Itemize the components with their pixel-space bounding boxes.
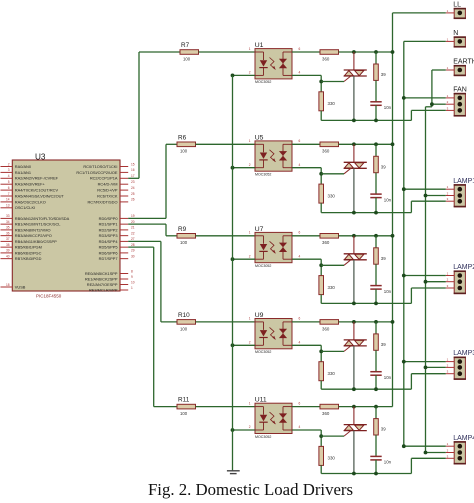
svg-text:RE3/MCLR/VPP: RE3/MCLR/VPP (89, 287, 118, 292)
svg-text:1: 1 (249, 139, 251, 143)
svg-text:LAMP2: LAMP2 (453, 264, 474, 271)
svg-text:2: 2 (249, 341, 251, 345)
svg-text:38: 38 (6, 243, 10, 247)
svg-text:10n: 10n (384, 197, 392, 202)
svg-text:7: 7 (8, 192, 10, 196)
svg-text:RD5/SPP5: RD5/SPP5 (99, 245, 118, 250)
svg-text:10n: 10n (384, 105, 392, 110)
svg-text:10n: 10n (384, 460, 392, 465)
svg-text:10: 10 (131, 280, 135, 284)
svg-text:4: 4 (299, 163, 301, 167)
svg-text:6: 6 (299, 317, 301, 321)
svg-text:100: 100 (180, 326, 188, 331)
svg-text:100: 100 (183, 56, 191, 61)
svg-text:16: 16 (131, 168, 135, 172)
svg-text:RA4/T0CKI/C1OUT/RCV: RA4/T0CKI/C1OUT/RCV (15, 188, 59, 193)
svg-text:R6: R6 (178, 134, 187, 141)
svg-text:RA5/AN4/SS/LVDIN/C2OUT: RA5/AN4/SS/LVDIN/C2OUT (15, 193, 65, 198)
svg-text:24: 24 (131, 186, 135, 190)
svg-text:RE0/AN5/CK1SPP: RE0/AN5/CK1SPP (85, 271, 118, 276)
svg-text:RC2/CCP1/P1A: RC2/CCP1/P1A (90, 176, 118, 181)
svg-text:LAMP4: LAMP4 (453, 435, 474, 442)
svg-text:RB6/KBI2/PGC: RB6/KBI2/PGC (15, 250, 42, 255)
svg-text:R11: R11 (178, 397, 190, 404)
svg-text:FAN: FAN (453, 87, 467, 94)
svg-text:20: 20 (131, 220, 135, 224)
svg-text:25: 25 (131, 192, 135, 196)
svg-text:RA2/AN2/VREF-/CVREF: RA2/AN2/VREF-/CVREF (15, 176, 59, 181)
svg-text:2: 2 (249, 163, 251, 167)
svg-text:R7: R7 (181, 42, 190, 49)
svg-text:21: 21 (131, 226, 135, 230)
svg-text:RD1/SPP1: RD1/SPP1 (99, 222, 118, 227)
svg-text:RD0/SPP0: RD0/SPP0 (99, 216, 119, 221)
svg-text:100: 100 (180, 149, 188, 154)
svg-text:4: 4 (299, 341, 301, 345)
svg-text:14: 14 (6, 198, 10, 202)
svg-text:VUSB: VUSB (15, 284, 26, 289)
svg-text:MOC3052: MOC3052 (255, 173, 271, 177)
svg-text:8: 8 (131, 269, 133, 273)
svg-text:4: 4 (299, 425, 301, 429)
svg-text:RB2/AN8/INT2/VMO: RB2/AN8/INT2/VMO (15, 227, 51, 232)
svg-text:RC5/D+/VP: RC5/D+/VP (97, 188, 118, 193)
svg-text:U5: U5 (255, 134, 264, 141)
svg-text:22: 22 (131, 231, 135, 235)
svg-text:1: 1 (249, 47, 251, 51)
svg-text:27: 27 (131, 237, 135, 241)
svg-text:MOC3052: MOC3052 (255, 350, 271, 354)
svg-text:U11: U11 (255, 397, 267, 404)
svg-text:36: 36 (6, 231, 10, 235)
svg-text:RC1/T1OSI/CCP2/UOE: RC1/T1OSI/CCP2/UOE (76, 170, 117, 175)
svg-text:6: 6 (8, 186, 10, 190)
svg-text:17: 17 (131, 174, 135, 178)
svg-text:U7: U7 (255, 226, 264, 233)
svg-text:30: 30 (131, 254, 135, 258)
svg-text:360: 360 (322, 240, 330, 245)
svg-text:4: 4 (299, 71, 301, 75)
svg-text:RD4/SPP4: RD4/SPP4 (99, 239, 119, 244)
svg-text:LAMP3: LAMP3 (453, 350, 474, 357)
svg-text:330: 330 (328, 456, 336, 461)
svg-text:39: 39 (381, 427, 386, 432)
svg-text:EARTH: EARTH (453, 59, 474, 66)
svg-text:40: 40 (6, 254, 10, 258)
svg-text:2: 2 (8, 162, 10, 166)
svg-text:39: 39 (381, 72, 386, 77)
svg-text:34: 34 (6, 220, 10, 224)
svg-text:RD3/SPP3: RD3/SPP3 (99, 233, 118, 238)
svg-text:29: 29 (131, 249, 135, 253)
svg-text:6: 6 (299, 47, 301, 51)
svg-text:RB7/KBI3/PGD: RB7/KBI3/PGD (15, 256, 42, 261)
svg-text:1: 1 (131, 286, 133, 290)
svg-text:Fig. 2. Domestic Load Drivers: Fig. 2. Domestic Load Drivers (148, 480, 353, 499)
svg-text:33: 33 (6, 214, 10, 218)
svg-text:RB1/AN10/INT1/SCK/SCL: RB1/AN10/INT1/SCK/SCL (15, 222, 61, 227)
svg-text:RC4/D-/VM: RC4/D-/VM (98, 182, 118, 187)
svg-text:N: N (453, 30, 458, 37)
svg-text:23: 23 (131, 180, 135, 184)
svg-text:330: 330 (328, 371, 336, 376)
svg-text:37: 37 (6, 237, 10, 241)
svg-text:MOC3052: MOC3052 (255, 264, 271, 268)
svg-text:28: 28 (131, 243, 135, 247)
svg-text:4: 4 (299, 254, 301, 258)
svg-text:OSC1/CLKI: OSC1/CLKI (15, 205, 35, 210)
svg-text:360: 360 (322, 149, 330, 154)
svg-text:6: 6 (299, 401, 301, 405)
svg-text:RC0/T1OSO/T1CKI: RC0/T1OSO/T1CKI (83, 164, 117, 169)
svg-text:4: 4 (8, 174, 10, 178)
svg-text:RA0/AN0: RA0/AN0 (15, 164, 32, 169)
svg-text:2: 2 (249, 254, 251, 258)
svg-text:6: 6 (299, 231, 301, 235)
svg-text:RD6/SPP6: RD6/SPP6 (99, 250, 118, 255)
svg-text:1: 1 (249, 401, 251, 405)
svg-text:RA3/AN3/VREF+: RA3/AN3/VREF+ (15, 182, 46, 187)
svg-text:360: 360 (322, 326, 330, 331)
svg-text:RB0/AN12/INT0/FLT0/SDI/SDA: RB0/AN12/INT0/FLT0/SDI/SDA (15, 216, 70, 221)
svg-text:100: 100 (180, 411, 188, 416)
svg-text:RA6/OSC2/CLKO: RA6/OSC2/CLKO (15, 199, 46, 204)
svg-text:U3: U3 (35, 153, 46, 162)
svg-text:39: 39 (6, 249, 10, 253)
svg-text:R10: R10 (178, 312, 190, 319)
svg-text:R9: R9 (178, 226, 187, 233)
svg-text:5: 5 (8, 180, 10, 184)
svg-text:U9: U9 (255, 312, 264, 319)
svg-text:330: 330 (328, 193, 336, 198)
svg-text:18: 18 (6, 283, 10, 287)
svg-text:2: 2 (249, 71, 251, 75)
svg-text:15: 15 (131, 162, 135, 166)
svg-text:RD7/SPP7: RD7/SPP7 (99, 256, 118, 261)
svg-text:6: 6 (299, 139, 301, 143)
svg-text:330: 330 (328, 285, 336, 290)
svg-text:RC6/TX/CK: RC6/TX/CK (97, 193, 118, 198)
svg-text:35: 35 (6, 226, 10, 230)
svg-text:39: 39 (381, 342, 386, 347)
svg-text:39: 39 (381, 256, 386, 261)
svg-text:LAMP1: LAMP1 (453, 178, 474, 185)
svg-text:13: 13 (6, 204, 10, 208)
svg-text:2: 2 (249, 425, 251, 429)
svg-text:RE2/AN7/OESPP: RE2/AN7/OESPP (87, 282, 118, 287)
svg-text:39: 39 (381, 164, 386, 169)
svg-text:10n: 10n (384, 375, 392, 380)
svg-text:RA1/AN1: RA1/AN1 (15, 170, 31, 175)
svg-text:MOC3052: MOC3052 (255, 435, 271, 439)
svg-text:U1: U1 (255, 42, 264, 49)
svg-text:RD2/SPP2: RD2/SPP2 (99, 227, 118, 232)
svg-text:9: 9 (131, 275, 133, 279)
svg-text:LL: LL (453, 2, 461, 9)
svg-text:1: 1 (249, 317, 251, 321)
svg-text:RC7/RX/DT/SDO: RC7/RX/DT/SDO (87, 199, 117, 204)
svg-text:360: 360 (322, 56, 330, 61)
svg-text:1: 1 (249, 231, 251, 235)
svg-text:RB5/KBI1/PGM: RB5/KBI1/PGM (15, 245, 42, 250)
svg-text:26: 26 (131, 198, 135, 202)
svg-text:PIC18F4550: PIC18F4550 (36, 294, 62, 299)
svg-text:100: 100 (180, 240, 188, 245)
svg-text:360: 360 (322, 411, 330, 416)
svg-text:19: 19 (131, 214, 135, 218)
svg-text:3: 3 (8, 168, 10, 172)
svg-text:10n: 10n (384, 289, 392, 294)
svg-text:RB3/AN9/CCP2/VPO: RB3/AN9/CCP2/VPO (15, 233, 52, 238)
svg-text:MOC3052: MOC3052 (255, 80, 271, 84)
svg-text:RE1/AN6/CK2SPP: RE1/AN6/CK2SPP (85, 276, 118, 281)
svg-text:RB4/AN11/KBI0/CSSPP: RB4/AN11/KBI0/CSSPP (15, 239, 57, 244)
svg-text:330: 330 (328, 101, 336, 106)
